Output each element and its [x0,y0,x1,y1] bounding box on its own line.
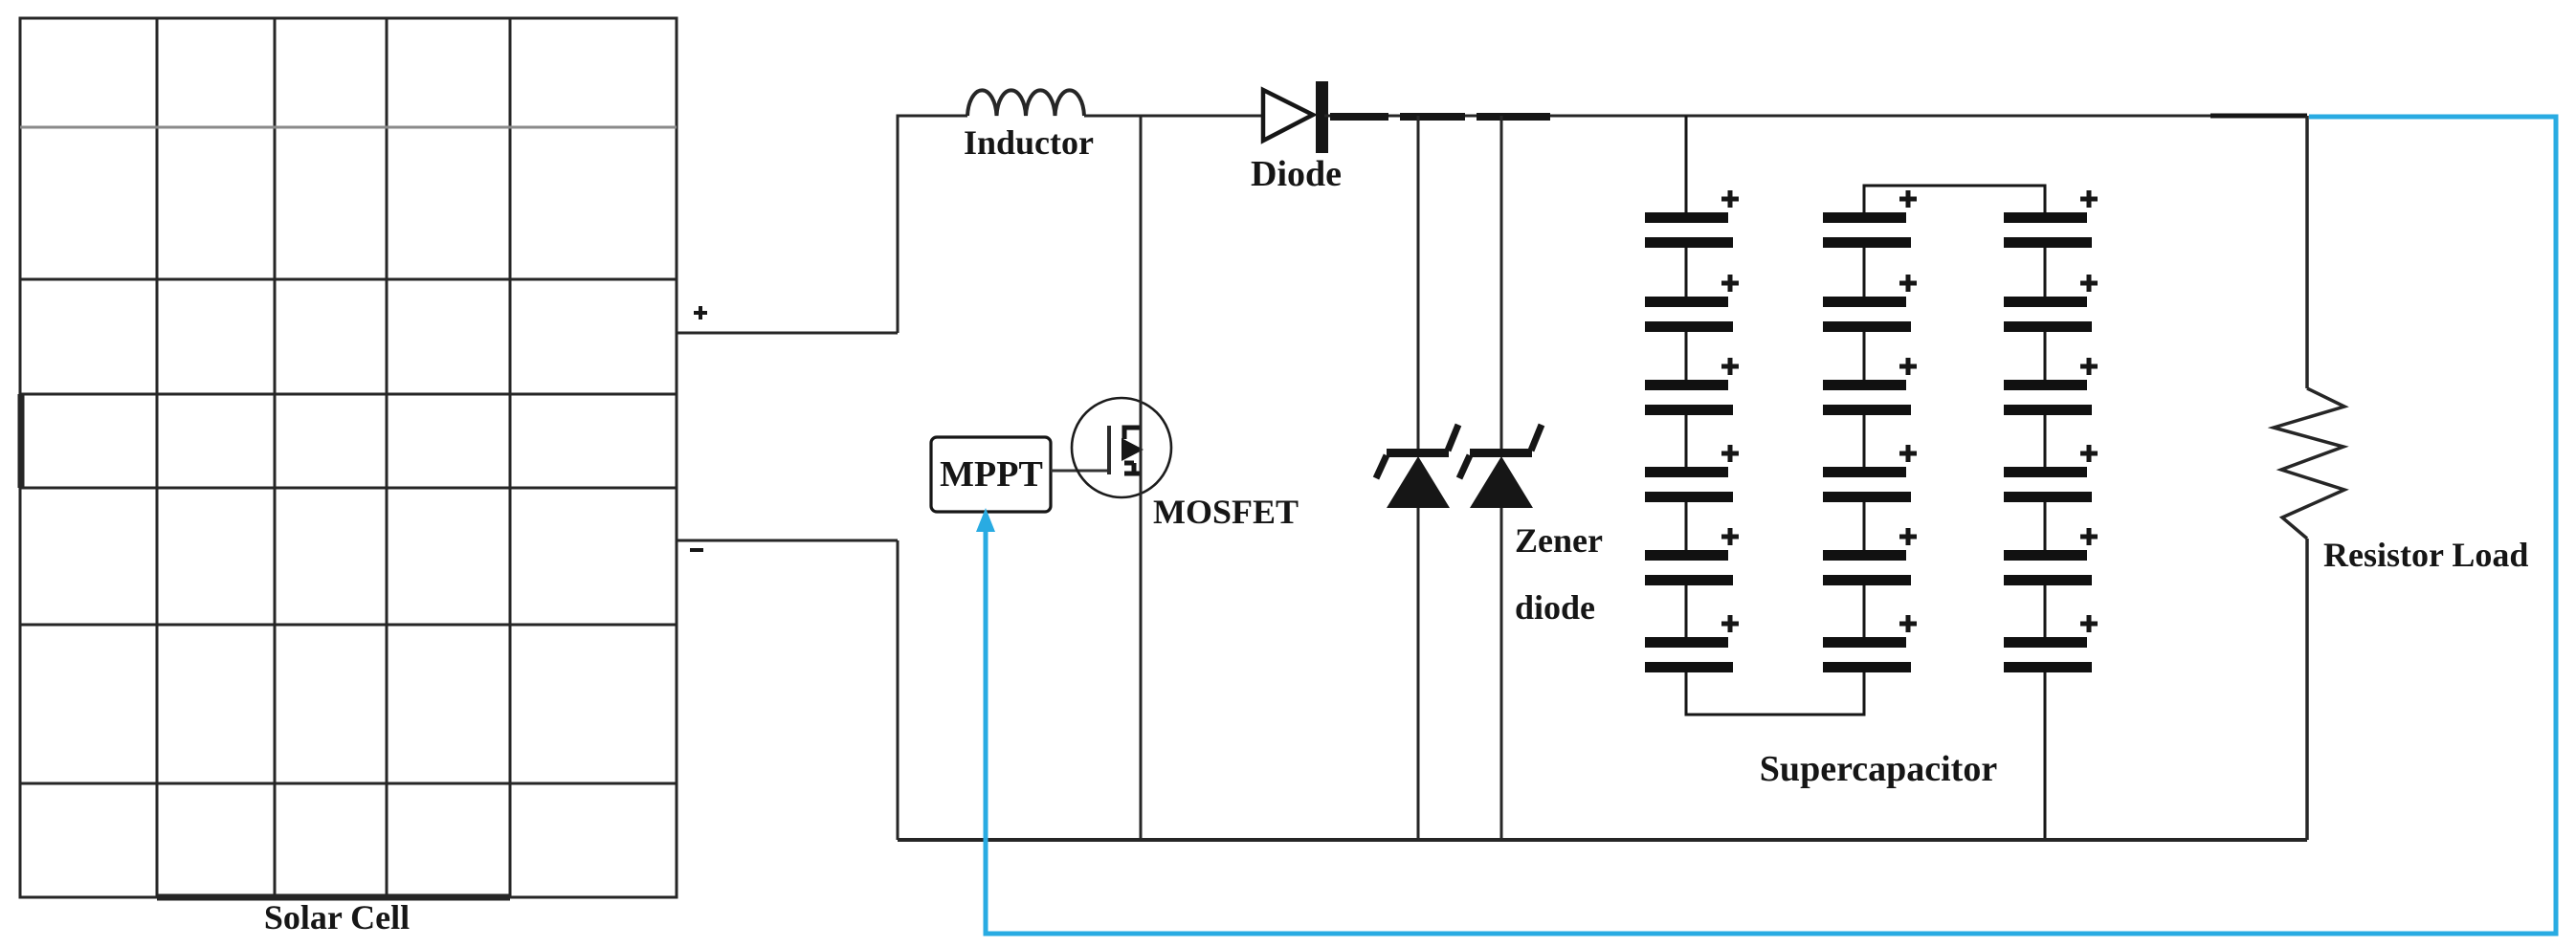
capacitor CC2 [2004,275,2098,332]
wire cap link C4-C5 [2044,502,2047,550]
feedback arrowhead into MPPT [976,508,995,532]
wire top bus inductor to diode [1084,115,1263,118]
capacitor CB5 [1823,528,1917,585]
capacitor CC4 [2004,445,2098,502]
solar cell panel grid [20,18,677,897]
wire negative terminal [677,540,898,542]
capacitor CA2 [1645,275,1739,332]
wire MPPT gate lead [1051,470,1109,473]
zener diode Z2 [1459,116,1542,840]
svg-text:diode: diode [1515,588,1595,627]
wire cap link A1-A2 [1685,248,1688,297]
node + (positive terminal label) [694,306,707,319]
capacitor CC5 [2004,528,2098,585]
MPPT block U1 [931,437,1051,512]
diode D1 [1263,81,1328,153]
wire cap link A2-A3 [1685,332,1688,380]
svg-text:Resistor Load: Resistor Load [2323,536,2528,574]
wire cap link B2-B3 [1863,332,1866,380]
zener diode Z1 [1376,116,1458,840]
transistor Q1 MOSFET [1072,398,1171,497]
wire cap link A4-A5 [1685,502,1688,550]
wire bottom bus [898,838,2307,842]
node - (negative terminal label) [690,548,703,552]
svg-text:MPPT: MPPT [940,454,1043,495]
wire cap link A5-A6 [1685,585,1688,637]
wire column B bottom stub [1863,672,1866,715]
wire cap link B1-B2 [1863,248,1866,297]
wire left riser [898,116,967,333]
wire cap link C5-C6 [2044,585,2047,637]
svg-text:MOSFET: MOSFET [1153,493,1299,531]
capacitor CB4 [1823,445,1917,502]
wire column A top lead [1685,116,1688,212]
svg-text:Supercapacitor: Supercapacitor [1760,749,1998,789]
capacitor CB6 [1823,615,1917,672]
wire MOSFET drain/source vertical [1140,116,1143,840]
capacitor CA5 [1645,528,1739,585]
wire column A bottom stub [1685,672,1688,715]
wire cap link A3-A4 [1685,415,1688,467]
resistor R1 load [2274,116,2344,840]
wire cap link B4-B5 [1863,502,1866,550]
wire cap link B5-B6 [1863,585,1866,637]
svg-text:Solar Cell: Solar Cell [264,898,410,936]
capacitor CA3 [1645,358,1739,415]
wire positive terminal [677,332,898,335]
capacitor CC6 [2004,615,2098,672]
capacitor CB1 [1823,190,1917,248]
capacitor CC3 [2004,358,2098,415]
inductor L1 [967,90,1084,116]
svg-text:Zener: Zener [1515,521,1603,560]
capacitor CB2 [1823,275,1917,332]
capacitor CA6 [1645,615,1739,672]
svg-text:Diode: Diode [1251,154,1342,194]
wire cap link C2-C3 [2044,332,2047,380]
capacitor CB3 [1823,358,1917,415]
wire column A-B bottom U link [1686,714,1864,716]
wire feedback loop (blue) [986,117,2556,934]
wire cap link C1-C2 [2044,248,2047,297]
capacitor CA4 [1645,445,1739,502]
svg-text:Inductor: Inductor [964,123,1094,162]
wire top bus diode to supercap (thick scanned segment) [1324,116,2307,117]
wire column B-C top link [1864,186,2045,212]
capacitor CA1 [1645,190,1739,248]
capacitor CC1 [2004,190,2098,248]
wire left drop to bottom bus [897,540,899,840]
wire cap link B3-B4 [1863,415,1866,467]
wire cap link C3-C4 [2044,415,2047,467]
wire column C to bottom bus [2044,672,2047,840]
